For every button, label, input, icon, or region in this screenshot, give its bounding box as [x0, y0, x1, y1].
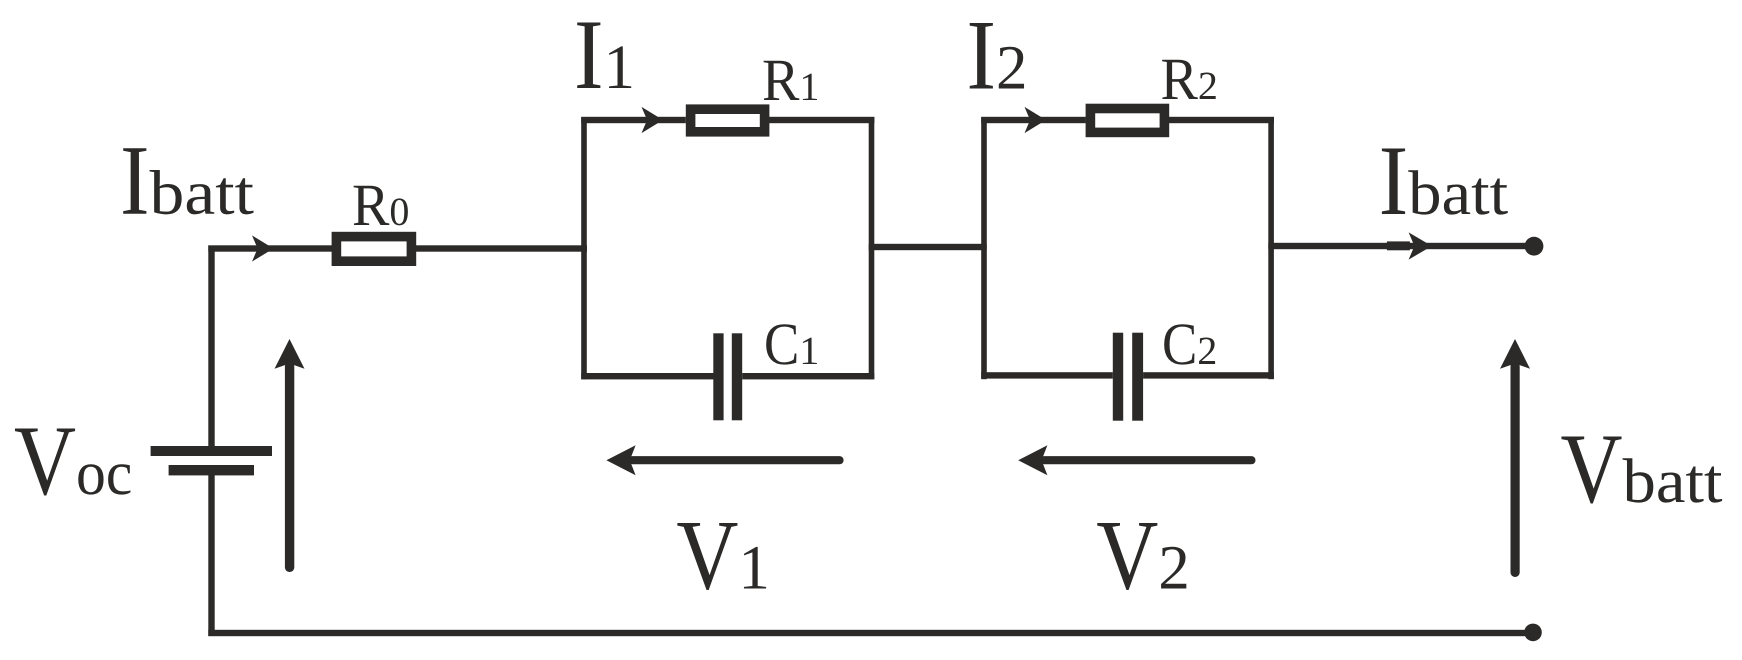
wire: box2 right edge [1268, 117, 1274, 379]
wire: box1 to box2 [869, 244, 987, 250]
battery Voc: bottom (short) plate [169, 465, 254, 475]
capacitor C2 plate right [1132, 333, 1143, 421]
wire: box1 bottom edge left part [581, 373, 713, 379]
capacitor C1 plate left [713, 333, 723, 420]
node/box 2 outline left edge [981, 117, 987, 379]
arrow Vbatt direction (right vertical up arrow) [1500, 339, 1530, 577]
wire: box2 bottom edge left part [981, 372, 1113, 378]
resistor R0 [336, 237, 411, 262]
label Ibatt_left [123, 148, 253, 214]
wire: box2 to output terminal [1268, 243, 1534, 249]
wire: box1 right edge [869, 117, 875, 379]
arrow V2 (left-pointing, under box2) [1018, 445, 1255, 475]
resistor R2 [1090, 109, 1164, 133]
terminal dot top right [1525, 237, 1544, 256]
capacitor C1 plate right [732, 333, 742, 420]
label R2 [1162, 60, 1216, 99]
label R0 [354, 186, 408, 226]
label Vbatt [1561, 437, 1722, 504]
wire: box1 top edge right part [769, 117, 874, 123]
resistor R1 [691, 109, 765, 132]
label I2 [970, 23, 1024, 88]
arrow I2 (box2 top branch) [1025, 107, 1047, 133]
battery Voc: top (long) plate [151, 446, 272, 456]
wire: bottom return rail [208, 630, 1533, 636]
arrow Ibatt (left, on main wire) [252, 235, 274, 261]
terminal dot bottom right [1524, 624, 1542, 642]
label I1 [577, 23, 631, 88]
label Ibatt_right [1382, 149, 1508, 215]
label R1 [764, 61, 817, 100]
wire: main top-left horizontal from node A to R0 [208, 245, 337, 251]
label V1 [677, 523, 766, 590]
arrow V1 (left-pointing, under box1) [606, 445, 843, 475]
arrow Ibatt (right, on output wire) [1387, 241, 1410, 250]
wire: box2 top edge left part [981, 117, 1086, 123]
label V2 [1097, 523, 1186, 590]
capacitor C2 plate left [1113, 333, 1123, 421]
wire: left vertical upper segment (node A to battery +) [208, 246, 214, 447]
wire: box2 bottom edge right part [1143, 372, 1274, 378]
node/box 1 outline (R1 parallel C1) [581, 117, 587, 379]
arrow I1 (box1 top branch) [642, 107, 664, 133]
arrow Voc direction (left vertical up arrow) [275, 339, 305, 572]
wire: R0 to box1 [411, 245, 587, 251]
label Voc [15, 429, 131, 496]
label C1 [766, 324, 817, 364]
wire: box2 top edge right part [1169, 117, 1274, 123]
wire: box1 bottom edge right part [742, 373, 874, 379]
label C2 [1164, 324, 1215, 364]
wire: left vertical lower segment (battery - to bottom rail) [208, 475, 214, 636]
wire: box1 top edge left part [581, 117, 686, 123]
